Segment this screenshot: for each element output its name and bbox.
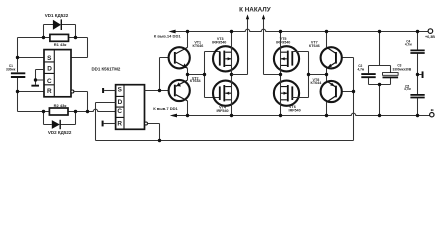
node: inverse output junction (158, 139, 161, 142)
arrow: to DD1 pin 7 (170, 114, 177, 118)
label: C1 330мк (6, 64, 16, 72)
node: R2 right junction (74, 110, 77, 113)
capacitor C5 (410, 95, 424, 98)
node: R1 left junction (42, 36, 45, 39)
svg-text:VD2 КД522: VD2 КД522 (48, 130, 72, 135)
svg-text:S: S (47, 55, 52, 62)
node: top bus C4 tap (416, 30, 419, 33)
node: driver bases junction (158, 89, 161, 92)
transistor VT3 (IRF9540 P-MOSFET) (213, 46, 238, 71)
svg-text:К выв.7 DD1: К выв.7 DD1 (153, 106, 178, 111)
svg-text:К выв.14 DD1: К выв.14 DD1 (154, 34, 182, 39)
svg-text:IRF540: IRF540 (216, 109, 228, 113)
output bubble: DD1.2 inverse output (145, 122, 148, 125)
transistor VT8 (КТ644 PNP mirrored) (321, 81, 342, 102)
node: R2 left junction (42, 110, 45, 113)
wire: bottom -supply bus with crossover hop (176, 113, 429, 115)
node: R input tap (16, 90, 19, 93)
transistor VT6 (IRF540 N-MOSFET mirrored) (274, 81, 299, 106)
label: C3 3300мк x 30В (392, 64, 411, 72)
wire: DD1.2 D feedback and inverse output bottom run (96, 58, 354, 141)
resistor R1 (50, 34, 69, 41)
node: top bus VT3 source (230, 30, 233, 33)
resistor R2 (49, 108, 68, 115)
node: bottom bus VT6 source (279, 114, 282, 117)
node: right gate line (307, 73, 310, 76)
flip-flop DD1.2 (116, 85, 145, 130)
node: top bus VT5 source (279, 30, 282, 33)
wire: filament output taps (232, 19, 281, 75)
node: top bus C2/C3 tap (378, 30, 381, 33)
svg-text:4,7м: 4,7м (405, 42, 412, 46)
wire: C1 branch verticals and taps to DD1.1 (18, 38, 45, 112)
svg-text:КТ646: КТ646 (193, 44, 204, 48)
wire: right driver column and gate line (291, 32, 326, 116)
node: C4/C5 midpoint (416, 73, 419, 76)
svg-text:VD1 КД522: VD1 КД522 (45, 13, 69, 18)
node: left bridge midpoint (230, 73, 233, 76)
logic tie bar: DD1.2 R input (102, 121, 116, 127)
svg-text:C: C (117, 108, 122, 115)
arrow: filament left (246, 14, 249, 19)
arrow: filament right (262, 14, 265, 19)
svg-text:IRF9540: IRF9540 (212, 41, 226, 45)
label: VT6 IRF540 (289, 105, 301, 112)
node: left gate line (203, 73, 206, 76)
svg-text:R2 43к: R2 43к (54, 103, 67, 108)
svg-text:R: R (117, 121, 122, 128)
wire: C4/C5 branch (418, 32, 430, 116)
wire: top +supply bus with crossover hops (175, 29, 428, 31)
node: bottom bus VT8 collector (325, 114, 328, 117)
svg-text:+6,3В: +6,3В (425, 35, 435, 39)
chassis bar: C4/C5 midpoint (422, 71, 424, 78)
svg-text:S: S (118, 86, 123, 93)
terminal: +6,3В supply (428, 29, 433, 34)
svg-text:3300мкх30В: 3300мкх30В (392, 68, 411, 72)
label: VT2 КТ644 (190, 76, 202, 83)
svg-text:IRF9540: IRF9540 (276, 41, 290, 45)
node: bottom bus C5 tap (416, 114, 419, 117)
node: bottom bus C2/C3 tap (378, 114, 381, 117)
svg-text:C: C (47, 78, 52, 85)
node: right bridge midpoint (279, 73, 282, 76)
node: top bus VT7 collector (325, 30, 328, 33)
transistor VT5 (IRF9540 P-MOSFET mirrored) (274, 46, 299, 71)
wire: R2/VD2 loop and DD1.1 outputs (44, 92, 116, 125)
wire: R1/VD1 loop wires (44, 25, 88, 58)
svg-text:R1 43к: R1 43к (54, 42, 67, 47)
diode VD1 (53, 19, 62, 30)
svg-text:R: R (47, 88, 52, 95)
transistor VT2 (КТ644 PNP) (169, 80, 190, 101)
capacitor C2 (361, 74, 375, 77)
capacitor C1 (11, 73, 25, 77)
diode VD2 (52, 120, 61, 129)
svg-text:4,7м: 4,7м (358, 68, 365, 72)
node: bottom bus VT4 source (230, 114, 233, 117)
node: top bus VT1 collector (186, 30, 189, 33)
node: D-C tie junction (34, 78, 37, 81)
node: left driver output (186, 73, 189, 76)
label: C2 4,7мк (358, 64, 365, 71)
capacitor C3 (electrolytic) (383, 73, 399, 79)
label: VT7 КТ646 (309, 40, 320, 48)
transistor VT4 (IRF540 N-MOSFET) (213, 81, 238, 106)
svg-text:DD1 К561ТМ2: DD1 К561ТМ2 (92, 66, 121, 71)
flip-flop DD1.1 (44, 50, 71, 97)
arrow: to DD1 pin 14 (168, 30, 175, 34)
wire: left driver column (188, 32, 220, 116)
terminal: supply minus (430, 113, 434, 117)
node: S input tap (16, 56, 19, 59)
svg-text:КТ644: КТ644 (311, 81, 323, 85)
capacitor C4 (410, 50, 424, 53)
svg-text:КТ644: КТ644 (190, 79, 202, 83)
svg-text:КТ646: КТ646 (309, 44, 320, 48)
node: right driver output (325, 73, 328, 76)
label: VT1 КТ646 (193, 40, 204, 48)
label: terminal tick (431, 109, 433, 111)
node: bottom bus VT2 collector (186, 114, 189, 117)
svg-text:330мк: 330мк (6, 67, 16, 71)
transistor VT7 (КТ646 NPN mirrored) (321, 47, 342, 68)
svg-text:4,7м: 4,7м (404, 87, 411, 91)
label: C4 4,7мк (405, 40, 412, 47)
label: VT4 IRF540 (216, 106, 228, 113)
output bubble: DD1.1 inverse output (71, 90, 74, 93)
wire: DD1.2 direct output to driver bases (145, 58, 169, 91)
label: VT5 IRF9540 (276, 37, 290, 45)
node: VT8 base junction (352, 90, 355, 93)
node: R1 right junction (74, 36, 77, 39)
wire: DD1.1 D-C tie (36, 70, 45, 85)
label: VT3 IRF9540 (212, 37, 226, 45)
transistor VT1 (КТ646 NPN) (169, 47, 190, 68)
label: C5 4,7мк (404, 84, 411, 91)
common bar: DD1.1 D-C tie (31, 85, 39, 87)
logic tie bar: DD1.2 S input (102, 88, 116, 93)
wire: VT3/VT4 drain-source column (231, 32, 233, 116)
svg-text:К НАКАЛУ: К НАКАЛУ (239, 7, 271, 14)
svg-text:D: D (47, 65, 52, 72)
node: C2/C3 bottom join (378, 83, 381, 86)
wire: VT5/VT6 drain-source column (280, 32, 282, 116)
svg-text:D: D (118, 99, 123, 106)
node: DD1.1 output to clock line (86, 110, 89, 113)
label: VT8 КТ644 (311, 78, 323, 85)
svg-text:IRF540: IRF540 (289, 109, 301, 113)
wire: C2/C3 parallel branch (369, 32, 391, 116)
